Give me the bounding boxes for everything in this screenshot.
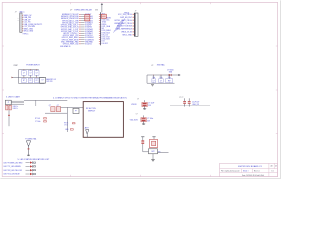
svg-text:D? SS34: D? SS34: [167, 70, 173, 72]
svg-text:C?: C?: [36, 73, 38, 75]
svg-text:J?: J?: [8, 102, 10, 104]
svg-text:LED? TX_LED GREEN: LED? TX_LED GREEN: [4, 166, 22, 168]
svg-text:4. CONNECT GPIO0 TO GND TO ENT: 4. CONNECT GPIO0 TO GND TO ENTER THE SER…: [53, 97, 127, 100]
svg-text:U0TXD_UART_PROG: U0TXD_UART_PROG: [114, 19, 132, 22]
svg-text:C? C?: C? C?: [179, 97, 183, 99]
svg-text:3V3: 3V3: [95, 10, 98, 12]
svg-text:C? 100n: C? 100n: [147, 118, 153, 120]
svg-text:U0RXD_UART_PROG: U0RXD_UART_PROG: [114, 22, 132, 25]
svg-text:GND: GND: [65, 129, 68, 131]
svg-text:USB_D-: USB_D-: [13, 108, 19, 110]
svg-text:C?: C?: [153, 81, 155, 83]
svg-text:IO0 IO2: IO0 IO2: [102, 43, 108, 45]
svg-text:5. LED STATUS INDICATORS LIST: 5. LED STATUS INDICATORS LIST: [18, 158, 51, 161]
svg-text:LED? RX_LED YELLOW: LED? RX_LED YELLOW: [4, 170, 23, 172]
svg-text:R?: R?: [23, 80, 25, 82]
svg-text:Rev: 1.0: Rev: 1.0: [254, 171, 260, 173]
svg-text:1/1: 1/1: [275, 166, 277, 168]
svg-text:U?: U?: [151, 65, 153, 67]
svg-text:J?: J?: [135, 11, 137, 13]
svg-text:22uF 10V: 22uF 10V: [192, 101, 200, 103]
svg-text:C? 10uF: C? 10uF: [148, 103, 154, 105]
svg-text:LED? POWER_LED RED: LED? POWER_LED RED: [4, 162, 24, 164]
svg-text:ESP32-WROOM-32E: ESP32-WROOM-32E: [75, 10, 93, 12]
svg-text:3V3 RAIL: 3V3 RAIL: [157, 64, 165, 67]
svg-text:FB?: FB?: [168, 81, 171, 83]
svg-text:C?: C?: [136, 114, 138, 116]
svg-text:GPIO15_HSPI_CS0: GPIO15_HSPI_CS0: [63, 44, 79, 46]
svg-text:RF SECTION: RF SECTION: [86, 108, 97, 110]
svg-text:PWR?: PWR?: [14, 65, 18, 67]
svg-text:U?: U?: [42, 79, 44, 81]
svg-text:CHIP_EN_RST: CHIP_EN_RST: [120, 17, 133, 19]
svg-text:KEEPOUT: KEEPOUT: [88, 111, 95, 113]
svg-text:USB_D+: USB_D+: [13, 106, 19, 108]
svg-text:GND_RF: GND_RF: [192, 104, 199, 106]
svg-text:VDD33: VDD33: [131, 104, 136, 106]
svg-text:GND_REFERENCE: GND_REFERENCE: [116, 29, 132, 31]
svg-text:C?: C?: [23, 73, 25, 75]
svg-text:SHLD_GND: SHLD_GND: [24, 31, 34, 33]
svg-text:U?: U?: [70, 10, 72, 12]
svg-text:1/1: 1/1: [272, 170, 274, 172]
svg-text:R? 1K: R? 1K: [64, 123, 68, 125]
svg-text:R?: R?: [30, 80, 32, 82]
svg-text:POWER INPUT: POWER INPUT: [26, 65, 40, 67]
svg-text:TYPE-C: TYPE-C: [23, 34, 30, 36]
svg-text:J?: J?: [15, 11, 17, 13]
svg-text:C?: C?: [160, 81, 162, 83]
svg-text:C? 100n: C? 100n: [35, 121, 41, 123]
svg-text:C?: C?: [30, 73, 32, 75]
svg-text:SHLD_GND: SHLD_GND: [122, 35, 132, 37]
svg-text:VDD_SDIO: VDD_SDIO: [130, 119, 139, 121]
svg-text:ESP32 DEV BOARD V1: ESP32 DEV BOARD V1: [238, 165, 262, 168]
svg-text:R? 10K: R? 10K: [35, 118, 40, 120]
svg-text:SW?: SW?: [151, 151, 154, 153]
svg-text:LED? IO2_LED BLUE: LED? IO2_LED BLUE: [4, 174, 21, 176]
svg-text:F?: F?: [75, 111, 77, 113]
svg-text:R?: R?: [36, 80, 38, 82]
svg-text:IO15/CS: IO15/CS: [85, 44, 93, 46]
svg-text:File: esp32_dev.kicad_sch: File: esp32_dev.kicad_sch: [221, 171, 240, 173]
svg-text:SOT-223: SOT-223: [46, 81, 52, 83]
svg-text:VBUS_5V_IN: VBUS_5V_IN: [121, 32, 132, 34]
svg-text:C?: C?: [137, 98, 139, 100]
svg-text:VCC_3V3_PROG: VCC_3V3_PROG: [118, 14, 133, 16]
svg-text:3. USB TO UART: 3. USB TO UART: [6, 95, 21, 98]
svg-text:C? 1n: C? 1n: [64, 125, 68, 127]
